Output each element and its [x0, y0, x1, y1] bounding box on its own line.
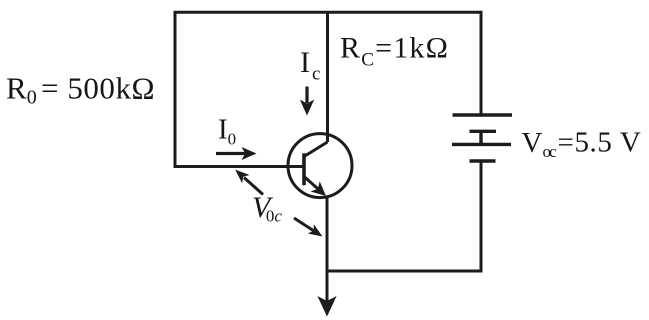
wire right lower (battery to bottom rail) — [327, 161, 481, 271]
current arrow Ic — [305, 87, 308, 104]
transistor Q1 emitter lead — [304, 177, 319, 190]
svg-text:RC=1kΩ: RC=1kΩ — [340, 32, 449, 71]
transistor Q1 base bar — [302, 153, 306, 185]
svg-text:I0: I0 — [218, 114, 236, 149]
V0c arrow to base wire (up-left) — [244, 178, 263, 195]
wire emitter vertical — [326, 197, 329, 302]
wire top rail — [175, 12, 481, 166]
battery V1 long plate (cell 2 +) — [452, 143, 511, 146]
transistor Q1 collector lead — [304, 142, 328, 157]
V0c arrow to emitter wire (down-right) — [294, 218, 314, 231]
wire right upper (top rail to battery) — [480, 11, 483, 115]
wire base (left horizontal into transistor base) — [174, 165, 304, 168]
wire collector vertical — [326, 12, 329, 142]
svg-text:R0 = 500kΩ: R0 = 500kΩ — [6, 71, 155, 109]
battery V1 long plate (cell 1 +) — [453, 113, 513, 116]
transistor emitter arrowhead — [311, 181, 326, 196]
transistor Q1 body circle — [288, 134, 352, 198]
svg-text:V0c: V0c — [252, 191, 282, 226]
current arrow I0 — [216, 152, 245, 155]
battery V1 short plate (cell 2 -) — [470, 159, 496, 162]
battery V1 short plate (cell 1 -) — [470, 130, 497, 133]
battery V1 inner link wire — [479, 131, 482, 144]
transistor Q1 (NPN) — [288, 134, 352, 198]
output ground arrow (bottom) — [317, 296, 336, 317]
svg-text:Ic: Ic — [300, 46, 320, 85]
svg-text:Voc=5.5 V: Voc=5.5 V — [522, 127, 642, 162]
battery V1 — [452, 115, 512, 161]
